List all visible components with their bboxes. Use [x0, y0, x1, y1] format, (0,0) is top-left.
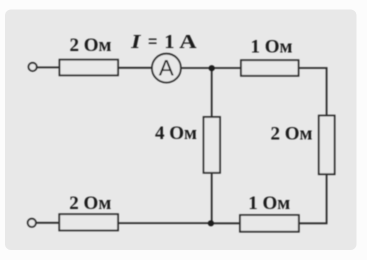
svg-text:4 Ом: 4 Ом [155, 123, 197, 144]
svg-text:1 Ом: 1 Ом [251, 36, 293, 57]
svg-text:I=1А: I=1А [130, 31, 197, 53]
resistor R2 1 Ом (top right) [241, 60, 299, 76]
terminal top-left [28, 63, 36, 71]
svg-text:1 Ом: 1 Ом [248, 193, 290, 214]
wire terminal to R1 [37, 66, 60, 68]
wire node A to R2 [212, 67, 241, 69]
wire terminal to R5 [36, 222, 59, 224]
resistor R3 2 Ом (right vertical) [319, 116, 335, 175]
terminal bottom-left [28, 219, 36, 227]
svg-text:A: A [159, 56, 174, 81]
wire node B to R6 [211, 222, 240, 224]
wire node A down to R4 [211, 68, 213, 117]
ammeter A1 [152, 54, 181, 83]
svg-text:2 Ом: 2 Ом [271, 124, 313, 145]
wire R2 to right rail [299, 68, 327, 116]
wire R5 to node B [118, 222, 211, 224]
resistor R1 2 Ом (top left) [60, 60, 119, 76]
wire right rail down to corner [299, 174, 327, 223]
node A junction dot [209, 65, 215, 71]
wire R4 to node B [211, 173, 213, 224]
resistor R4 4 Ом (middle vertical) [204, 117, 220, 173]
svg-text:2 Ом: 2 Ом [70, 35, 112, 56]
svg-text:2 Ом: 2 Ом [69, 193, 111, 214]
wire R1 to ammeter [118, 67, 152, 69]
resistor R5 2 Ом (bottom left) [59, 214, 118, 230]
wire ammeter to node A [181, 67, 212, 69]
node B junction dot [208, 220, 214, 226]
resistor R6 1 Ом (bottom right) [240, 215, 299, 232]
